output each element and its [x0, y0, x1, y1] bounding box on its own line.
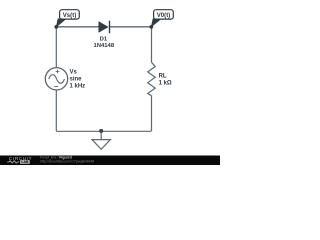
wire top right: diode D1 cathode to node V0(t): [110, 26, 152, 28]
svg-text:http://circuitlab.com/c/7pvqdk: http://circuitlab.com/c/7pvqdkr9648: [40, 160, 94, 164]
svg-text:1 kΩ: 1 kΩ: [159, 80, 172, 86]
wire left vertical lower: source Vs - terminal to bottom net: [55, 90, 57, 131]
wire top left: node Vs(t) to diode D1 anode: [56, 26, 98, 28]
svg-text:1N4148: 1N4148: [93, 43, 114, 49]
wire right vertical upper: node V0(t) to resistor RL top: [151, 27, 153, 63]
voltage source V1 (sine) symbol: [45, 68, 67, 90]
svg-text:D1: D1: [100, 37, 108, 43]
svg-text:Vs(t): Vs(t): [63, 12, 77, 19]
ground: [92, 131, 110, 149]
node V0(t) flag: [149, 10, 173, 29]
svg-text:LAB: LAB: [21, 160, 29, 164]
svg-text:sine: sine: [70, 77, 83, 83]
footer watermark bar: [0, 155, 220, 165]
svg-text:V0(t): V0(t): [157, 12, 171, 19]
wire right vertical lower: resistor RL bottom to bottom net: [151, 96, 153, 131]
diode D1: [99, 21, 110, 33]
wire left vertical upper: node Vs(t) to source Vs + terminal: [55, 27, 57, 68]
resistor RL zigzag: [148, 62, 156, 95]
node Vs(t) flag: [54, 10, 79, 29]
svg-text:RL: RL: [159, 73, 167, 79]
junction dot on ground net: [99, 129, 103, 133]
wire bottom: ground net: [56, 130, 151, 132]
svg-text:Vs: Vs: [70, 70, 78, 76]
svg-text:1 kHz: 1 kHz: [70, 84, 86, 90]
